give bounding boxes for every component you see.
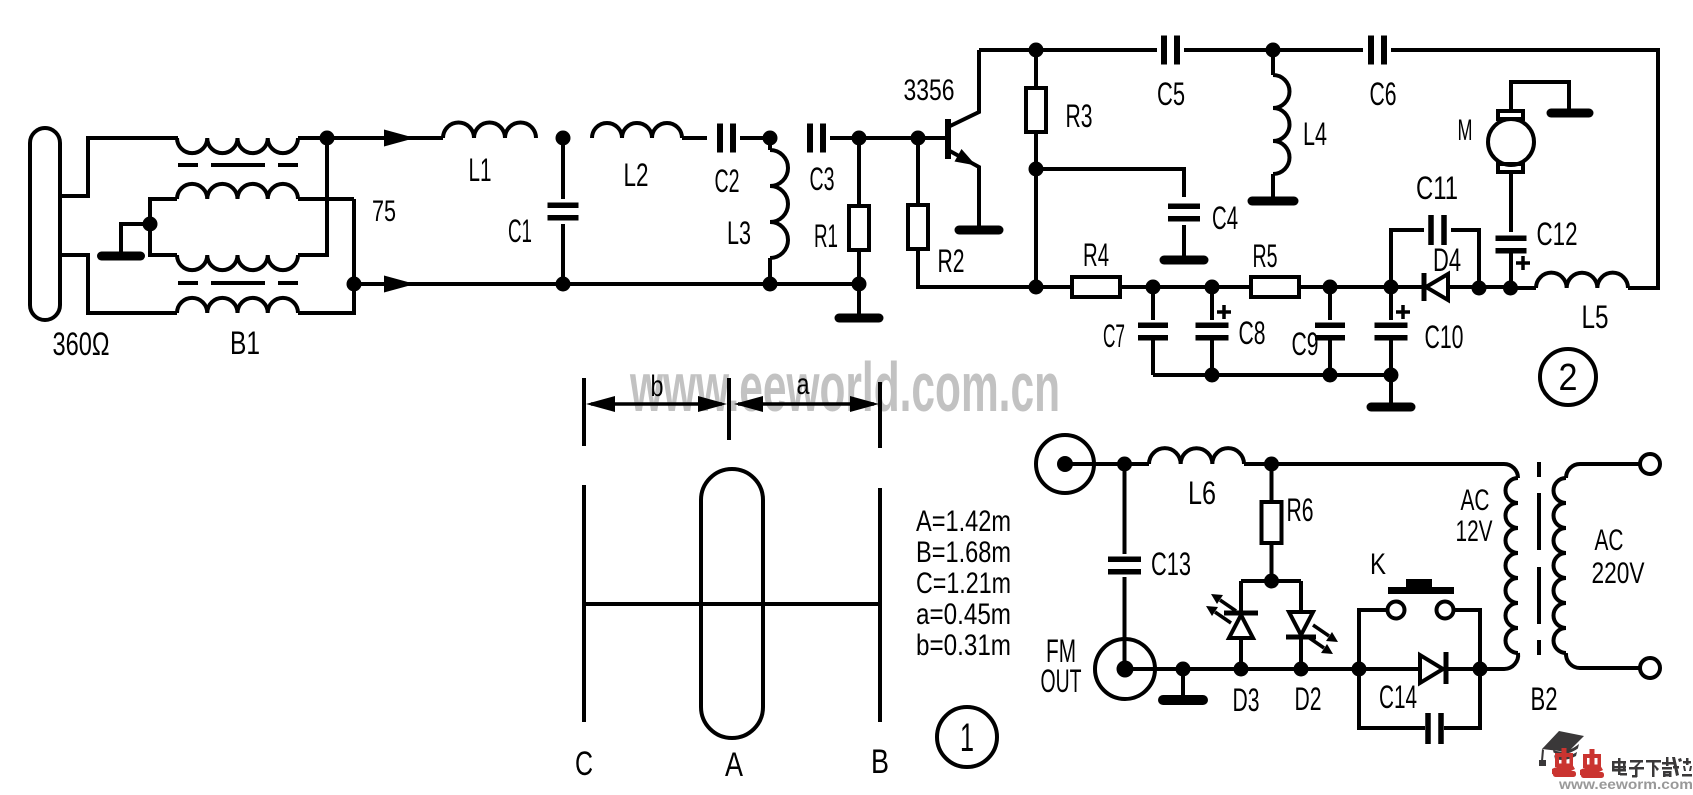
wire D2 bottom: [1299, 639, 1303, 669]
node L1-C1: [556, 131, 571, 146]
motor brush top: [1498, 111, 1523, 119]
node collector rail R3: [1029, 43, 1044, 58]
svg-text:D2: D2: [1295, 681, 1322, 717]
wire R5 to D4: [1299, 285, 1422, 289]
wire top rail left: [979, 48, 1157, 52]
capacitor C1: [548, 205, 579, 218]
svg-text:L2: L2: [624, 157, 649, 193]
wire secondary bottom: [1580, 666, 1640, 670]
wire C3 to node: [830, 136, 859, 140]
resistor R5: [1251, 277, 1299, 297]
node C5-L4-C6: [1266, 43, 1281, 58]
LED D3 arrow 2: [1215, 612, 1231, 623]
motor M: [1488, 119, 1534, 165]
arrow bottom feed: [384, 276, 415, 293]
inductor L6: [1149, 448, 1244, 464]
dimension arrow b-left: [586, 396, 615, 412]
wire C11 left: [1391, 230, 1424, 287]
capacitor C14 right leg: [1444, 669, 1480, 728]
wire C8 bottom: [1210, 337, 1214, 375]
ground balun center tap: [119, 251, 123, 256]
svg-text:C4: C4: [1212, 200, 1238, 236]
svg-text:A=1.42m: A=1.42m: [916, 505, 1011, 538]
transformer B2 secondary top: [1566, 464, 1580, 478]
LED D2 cathode bar: [1286, 635, 1316, 640]
wire winding1 right to top out: [298, 136, 327, 140]
svg-text:L3: L3: [727, 215, 751, 251]
diode D4 triangle: [1426, 274, 1448, 300]
wire R2 body path: [916, 138, 920, 205]
svg-text:M: M: [1458, 114, 1473, 147]
wire D2 top: [1299, 581, 1303, 612]
node ground tap: [1176, 662, 1191, 677]
wire C5 to L4: [1184, 48, 1273, 52]
node C10-C11-D4: [1384, 280, 1399, 295]
node D3 rail: [1234, 662, 1249, 677]
wire R6 top: [1270, 464, 1274, 502]
svg-text:C10: C10: [1425, 319, 1464, 355]
node L6-R6: [1264, 457, 1279, 472]
transformer B2 right winding: [1554, 478, 1567, 653]
svg-text:www.eeworld.com.cn: www.eeworld.com.cn: [629, 348, 1060, 426]
node C11 right: [1472, 281, 1487, 296]
svg-text:R6: R6: [1287, 492, 1314, 528]
LED D3 cathode bar: [1224, 611, 1258, 616]
arrow top feed: [384, 130, 415, 147]
transistor Q1 collector lead: [948, 50, 979, 127]
wire winding3 right end: [298, 138, 327, 255]
capacitor C13: [1108, 559, 1141, 572]
svg-text:C=1.21m: C=1.21m: [916, 567, 1011, 600]
wire rail to L5: [1510, 286, 1536, 290]
resistor R1: [849, 206, 869, 250]
antenna folded-dipole 360ohm: [30, 128, 60, 320]
wire LED bracket: [1241, 579, 1301, 583]
svg-text:1: 1: [960, 716, 974, 760]
logo chongchong char1: [1552, 748, 1576, 777]
resistor R6: [1262, 502, 1282, 543]
node C2-L3-C3: [763, 131, 778, 146]
node C9 top: [1323, 280, 1338, 295]
wire secondary top: [1580, 462, 1640, 466]
LED D2 triangle: [1289, 612, 1313, 635]
LED D2 arrow 1: [1313, 625, 1329, 636]
wire C9 bottom: [1328, 337, 1332, 375]
wire D3 bottom: [1239, 638, 1243, 669]
wire R3 top: [1034, 50, 1038, 88]
wire C6 to corner: [1391, 50, 1658, 288]
wire to C4: [1036, 169, 1184, 197]
svg-text:C5: C5: [1157, 76, 1185, 112]
svg-text:B1: B1: [230, 325, 260, 361]
svg-text:C8: C8: [1239, 315, 1266, 351]
svg-text:L1: L1: [469, 152, 492, 188]
transistor Q1 emitter lead: [948, 150, 979, 227]
wire C10 bottom: [1389, 337, 1393, 375]
wire R2 bottom to rail: [918, 249, 1036, 287]
svg-text:OUT: OUT: [1041, 663, 1082, 699]
wire L4 to C6: [1273, 48, 1363, 52]
wire C1 bottom: [561, 224, 565, 284]
balun B1 winding 1: [177, 138, 298, 153]
plus C12: [1516, 256, 1530, 270]
node C8 bottom: [1205, 368, 1220, 383]
dimension line b: [591, 402, 722, 406]
dimension tick center: [727, 378, 731, 440]
capacitor C14: [1428, 713, 1441, 744]
wire C11 right: [1451, 230, 1479, 288]
svg-text:C12: C12: [1537, 216, 1578, 252]
wire C7 top: [1151, 287, 1155, 320]
node K right: [1473, 662, 1488, 677]
switch K contact 2: [1437, 602, 1454, 619]
svg-text:C7: C7: [1103, 318, 1125, 354]
svg-text:b: b: [651, 370, 664, 403]
svg-text:R4: R4: [1083, 237, 1109, 273]
wire C9 top: [1328, 287, 1332, 320]
svg-text:L5: L5: [1582, 299, 1609, 335]
ground emitter: [977, 227, 981, 230]
transformer B2 secondary bottom: [1566, 653, 1580, 668]
svg-text:K: K: [1370, 548, 1386, 581]
svg-text:C11: C11: [1416, 170, 1458, 206]
svg-text:A: A: [725, 746, 743, 784]
LED D3 arrow 1: [1220, 600, 1236, 611]
figure tag 1 circle: [937, 707, 997, 767]
diode D5 triangle: [1420, 655, 1443, 683]
capacitor C9: [1315, 325, 1345, 338]
plus C10: [1396, 305, 1410, 319]
svg-text:C13: C13: [1151, 546, 1191, 582]
balun B1 winding 3: [177, 255, 298, 270]
node C3-R1: [852, 131, 867, 146]
svg-text:220V: 220V: [1592, 557, 1645, 590]
transformer B2 primary bottom: [1504, 653, 1518, 669]
wire bottom feed: [354, 282, 563, 286]
wire R1 bottom: [857, 250, 861, 284]
wire bottom rail mid: [563, 282, 859, 286]
switch K contact 1: [1388, 602, 1405, 619]
wire winding2 left to center tap: [150, 199, 177, 255]
node balun bottom output: [347, 277, 362, 292]
svg-text:AC: AC: [1461, 484, 1490, 517]
resistor R2: [908, 205, 928, 249]
node C7 top: [1146, 280, 1161, 295]
figure tag 2 circle: [1540, 349, 1596, 405]
node C9 bottom: [1323, 368, 1338, 383]
capacitor C2: [720, 124, 733, 153]
wire FM out rail: [1125, 667, 1422, 671]
inductor L4: [1273, 75, 1290, 174]
wire C2 to node: [740, 136, 770, 140]
svg-text:R5: R5: [1253, 238, 1278, 274]
svg-text:C2: C2: [715, 163, 740, 199]
switch K right leg: [1453, 610, 1480, 669]
ground L4: [1271, 174, 1275, 201]
wire D3 top: [1239, 581, 1243, 611]
capacitor C4: [1168, 206, 1200, 219]
node balun top output: [320, 131, 335, 146]
node C13 top: [1117, 457, 1132, 472]
dipole element C: [582, 485, 586, 722]
ground FM out: [1181, 669, 1185, 700]
capacitor C6: [1371, 36, 1384, 65]
svg-text:C9: C9: [1292, 326, 1319, 362]
dipole folded element A: [701, 469, 763, 738]
capacitor C11: [1431, 215, 1444, 245]
inductor L3: [770, 150, 788, 258]
balun B1 winding 2: [177, 184, 298, 199]
wire diode to xfmr: [1448, 667, 1504, 671]
svg-text:D3: D3: [1233, 682, 1260, 718]
wire C8 top: [1210, 287, 1214, 320]
wire L3 stem top: [768, 138, 772, 150]
svg-text:AC: AC: [1595, 524, 1624, 557]
svg-text:360Ω: 360Ω: [53, 326, 110, 362]
svg-text:12V: 12V: [1456, 515, 1493, 548]
node D2 rail: [1294, 662, 1309, 677]
wire R1 top: [857, 138, 861, 206]
motor brush bottom: [1498, 164, 1523, 172]
wire jack to L6: [1065, 462, 1149, 466]
node R3 bottom: [1029, 162, 1044, 177]
switch K left leg: [1359, 610, 1388, 669]
wire R4 to R5: [1120, 285, 1251, 289]
dipole boom: [584, 602, 880, 606]
inductor L5: [1536, 273, 1628, 288]
capacitor C12: [1496, 238, 1527, 251]
balun core 2: [178, 281, 298, 285]
wire D4 to C11 node: [1448, 285, 1510, 289]
node L3 bottom: [763, 277, 778, 292]
capacitor C10: [1375, 325, 1408, 338]
dimension arrow a-left: [734, 396, 763, 412]
wire rail R4: [1036, 285, 1072, 289]
svg-text:2: 2: [1559, 357, 1578, 399]
svg-text:b=0.31m: b=0.31m: [916, 629, 1011, 662]
node LED split: [1264, 574, 1279, 589]
svg-text:D4: D4: [1433, 242, 1461, 278]
wire base: [859, 136, 946, 140]
svg-text:B2: B2: [1531, 681, 1558, 717]
node C10 bottom: [1384, 368, 1399, 383]
node rail R4 start: [1029, 280, 1044, 295]
wire motor to C12: [1509, 172, 1513, 232]
node C8 top: [1205, 280, 1220, 295]
capacitor C14 left leg: [1359, 669, 1425, 728]
wire L3 bottom: [768, 258, 772, 284]
svg-text:L4: L4: [1303, 116, 1327, 152]
node base-R2: [911, 131, 926, 146]
svg-text:75: 75: [372, 195, 396, 228]
transformer B2 core: [1537, 462, 1541, 670]
wire C1 top: [561, 138, 565, 199]
capacitor C5: [1164, 36, 1177, 65]
antenna top arm: [60, 138, 178, 196]
capacitor C7: [1138, 325, 1168, 338]
wire R3 node down: [1034, 169, 1038, 287]
svg-text:C6: C6: [1370, 76, 1397, 112]
logo graduation cap: [1539, 731, 1584, 766]
dimension arrow b-right: [698, 396, 727, 412]
logo text dianzishiazaizhan: [1612, 757, 1692, 778]
antenna bottom arm: [60, 255, 177, 313]
svg-text:C14: C14: [1379, 679, 1417, 715]
wire R6 bottom: [1270, 543, 1274, 581]
svg-text:R3: R3: [1066, 98, 1093, 134]
svg-text:C: C: [575, 745, 593, 783]
wire top feed to L1: [327, 136, 443, 140]
wire C10 top: [1389, 287, 1393, 320]
transformer B2 left winding: [1505, 478, 1518, 653]
transformer B2 primary: [1504, 464, 1518, 478]
dipole element B: [878, 488, 882, 722]
resistor R4: [1072, 277, 1120, 297]
svg-text:R2: R2: [938, 243, 965, 279]
plus C8: [1217, 305, 1231, 319]
balun core 1: [178, 163, 298, 167]
jack antenna center: [1057, 456, 1073, 472]
node R1 bottom: [852, 277, 867, 292]
svg-text:B: B: [871, 743, 889, 781]
svg-text:L6: L6: [1188, 475, 1216, 511]
ground input filter: [857, 284, 861, 318]
logo chongchong char2: [1580, 749, 1604, 778]
svg-text:www.eeworm.com: www.eeworm.com: [1558, 776, 1693, 790]
svg-text:B=1.68m: B=1.68m: [916, 536, 1011, 569]
wire winding2 right end: [298, 197, 354, 201]
transistor Q1 emitter arrow: [955, 149, 977, 166]
svg-text:C1: C1: [508, 213, 532, 249]
terminal bottom: [1640, 658, 1660, 678]
diode D4 cathode bar: [1422, 273, 1427, 301]
wire C13 top: [1123, 464, 1127, 554]
wire motor top to ground: [1511, 82, 1569, 111]
inductor L1: [443, 123, 536, 139]
wire L4 stem: [1271, 50, 1275, 75]
ground supply caps: [1389, 375, 1393, 407]
wire L6 to xfmr: [1244, 462, 1504, 466]
jack FM OUT center: [1117, 661, 1134, 678]
wire winding4 right end: [298, 199, 354, 313]
transistor Q1 3356 base bar: [945, 119, 951, 159]
svg-text:a=0.45m: a=0.45m: [916, 598, 1011, 631]
ground C4: [1182, 225, 1186, 260]
svg-text:C3: C3: [810, 161, 835, 197]
LED D2 arrow 2: [1308, 637, 1324, 648]
node balun center tap: [143, 217, 158, 232]
wire L2 to C2: [682, 136, 707, 140]
svg-text:R1: R1: [814, 218, 838, 254]
node C1 bottom: [556, 277, 571, 292]
wire cap ground rail: [1153, 373, 1391, 377]
diode D5 cathode bar: [1444, 652, 1449, 684]
svg-text:a: a: [797, 368, 810, 401]
node K left: [1352, 662, 1367, 677]
dimension tick C: [582, 378, 586, 446]
inductor L2: [592, 123, 682, 138]
wire center tap to ground: [121, 224, 150, 251]
switch K button: [1388, 587, 1454, 594]
ground motor: [1551, 109, 1589, 118]
capacitor C8: [1196, 325, 1229, 338]
capacitor C3: [810, 124, 823, 153]
node C12 rail: [1503, 281, 1518, 296]
dimension line a: [738, 402, 874, 406]
resistor R3: [1026, 88, 1046, 132]
LED D3 triangle: [1229, 615, 1253, 638]
svg-text:3356: 3356: [904, 74, 955, 107]
dimension arrow a-right: [850, 396, 879, 412]
jack antenna outer: [1036, 435, 1094, 493]
wire C7 bottom: [1151, 337, 1155, 375]
dimension tick B: [878, 382, 882, 448]
wire C12 bottom: [1509, 251, 1513, 288]
terminal top: [1640, 454, 1660, 474]
wire C13 bottom: [1123, 577, 1127, 669]
balun B1 winding 4: [177, 298, 298, 313]
wire R3 bottom: [1034, 132, 1038, 169]
jack FM OUT outer: [1095, 639, 1155, 699]
